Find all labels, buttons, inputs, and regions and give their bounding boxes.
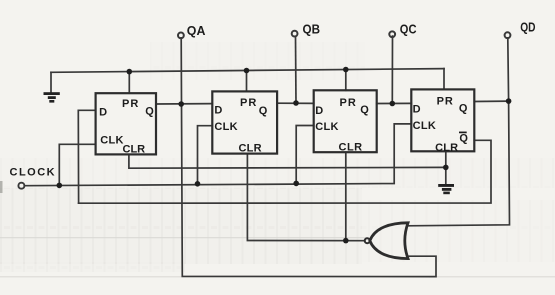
- node clock-CLK3: [293, 181, 299, 187]
- svg-text:CLR: CLR: [239, 143, 262, 155]
- wire FF2 CLK: [198, 126, 213, 184]
- svg-text:D: D: [315, 105, 323, 117]
- node clock-CLK1: [57, 183, 63, 189]
- wire FF4 CLR to ground: [445, 151, 447, 185]
- wire CLR rail FF1 to FF4 ground: [129, 154, 446, 168]
- ground (top-left): [44, 72, 60, 102]
- node QC terminal: [389, 31, 395, 37]
- node NOR-CLR3: [343, 238, 349, 244]
- svg-text:PR: PR: [240, 97, 257, 109]
- svg-text:QB: QB: [303, 22, 321, 37]
- node QB-Q2: [293, 100, 299, 106]
- svg-text:CLK: CLK: [214, 121, 238, 133]
- svg-text:PR: PR: [122, 98, 139, 110]
- wire FF1 CLK: [59, 144, 95, 185]
- svg-text:D: D: [214, 105, 222, 117]
- svg-text:CLK: CLK: [315, 121, 339, 133]
- node CLOCK terminal: [18, 183, 24, 189]
- svg-text:QD: QD: [520, 19, 535, 34]
- node rail-PR3: [343, 67, 349, 73]
- svg-text:CLR: CLR: [123, 143, 146, 155]
- wire FF3 CLK: [296, 126, 314, 184]
- wire PR riser FF3: [345, 70, 347, 91]
- wire FF3 CLR down: [345, 152, 347, 240]
- wire Q4 to QD line: [474, 100, 508, 102]
- flip-flop U3 box: [314, 90, 377, 152]
- wire FF2 CLR down to NOR output line: [247, 154, 364, 241]
- node QA terminal: [178, 33, 184, 39]
- wire QA vertical down to NOR bottom loop: [181, 38, 436, 277]
- node QD terminal: [505, 32, 511, 38]
- svg-text:QC: QC: [400, 21, 417, 36]
- svg-text:Q: Q: [459, 103, 468, 115]
- flip-flop U1 box: [96, 93, 156, 154]
- labels: [99, 96, 468, 156]
- node QC-Q3: [390, 101, 396, 107]
- wire Q4-bar feedback to FF1 D: [79, 140, 491, 203]
- node CLR4-gnd: [443, 165, 449, 171]
- svg-text:CLR: CLR: [435, 142, 458, 154]
- node QA-Q1: [178, 101, 184, 107]
- svg-text:CLK: CLK: [100, 135, 124, 147]
- wire FF1 D input from feedback: [78, 110, 95, 203]
- wire QC vertical: [391, 36, 393, 103]
- svg-text:CLOCK: CLOCK: [10, 167, 57, 179]
- svg-text:CLK: CLK: [413, 120, 437, 132]
- wire PR riser FF2: [246, 71, 248, 92]
- svg-text:Q: Q: [360, 104, 369, 116]
- wire Q1 to D2: [156, 103, 212, 105]
- wire PR riser FF1: [128, 72, 130, 94]
- wire Q2 to D3: [277, 102, 314, 104]
- svg-text:Q: Q: [459, 133, 468, 145]
- wire Q3 to D4: [377, 102, 412, 104]
- svg-text:CLR: CLR: [339, 141, 363, 153]
- wire top PR rail: [51, 69, 444, 73]
- node rail-PR1: [127, 69, 133, 75]
- svg-text:D: D: [413, 103, 421, 115]
- flip-flop U2 box: [212, 91, 277, 153]
- node QB terminal: [292, 31, 298, 37]
- svg-text:QA: QA: [187, 23, 206, 38]
- ground (below FF4): [438, 184, 454, 194]
- svg-text:PR: PR: [340, 97, 357, 109]
- wire clock line: [25, 124, 412, 186]
- svg-text:D: D: [99, 106, 107, 118]
- node QD-Q4: [506, 98, 512, 104]
- NOR gate U5 (left-facing): [365, 223, 408, 259]
- wire QD vertical down then left to NOR top input: [408, 38, 510, 226]
- wire QB vertical: [295, 37, 298, 103]
- svg-text:Q: Q: [259, 105, 268, 117]
- node clock-CLK2: [195, 181, 201, 187]
- svg-text:Q: Q: [145, 106, 154, 118]
- wire PR riser FF4: [443, 69, 445, 90]
- svg-text:PR: PR: [437, 96, 454, 108]
- flip-flop U4 box: [411, 89, 474, 151]
- node rail-PR2: [244, 68, 250, 74]
